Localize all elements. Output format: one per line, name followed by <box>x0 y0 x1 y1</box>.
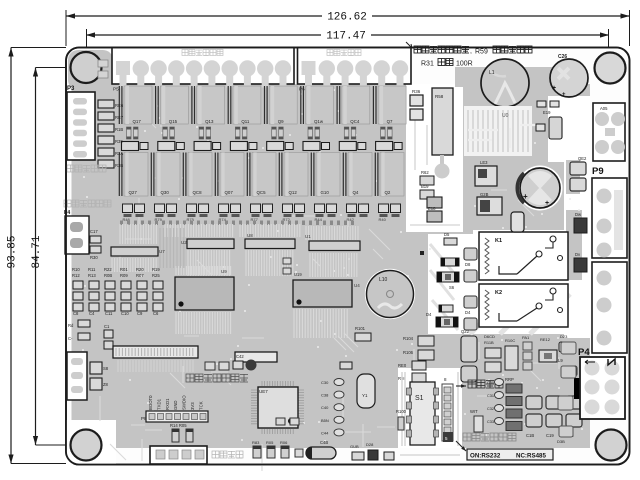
svg-text:C44: C44 <box>321 430 329 435</box>
svg-text:C10: C10 <box>121 311 129 316</box>
svg-text:117.47: 117.47 <box>326 31 366 43</box>
diode D5 <box>444 238 457 245</box>
annotation solder note <box>406 42 412 48</box>
crystal Y1 <box>357 374 375 408</box>
svg-text:R10: R10 <box>72 267 80 272</box>
svg-text:U7: U7 <box>159 249 165 254</box>
svg-text:A05: A05 <box>600 106 608 111</box>
svg-text:GUB: GUB <box>350 444 359 449</box>
svg-text:R20: R20 <box>136 267 144 272</box>
svg-text:R0B: R0B <box>104 273 112 278</box>
svg-text:R83: R83 <box>252 440 260 445</box>
svg-text:R12: R12 <box>72 273 80 278</box>
diode D8 <box>464 248 477 260</box>
svg-text:R36: R36 <box>412 89 421 94</box>
svg-text:RE12: RE12 <box>540 337 551 342</box>
mounting hole bottom-left <box>71 430 102 461</box>
svg-text:R09: R09 <box>120 273 128 278</box>
svg-text:C26: C26 <box>558 54 567 60</box>
mounting hole bottom-right <box>596 430 627 461</box>
svg-text:Z8: Z8 <box>103 382 109 387</box>
component QE2 <box>570 162 586 175</box>
svg-text:R13: R13 <box>88 273 96 278</box>
resistor B19 <box>420 190 434 199</box>
trace lines near S1 <box>400 372 460 455</box>
component E18 <box>427 197 442 208</box>
IC S1 <box>410 382 435 445</box>
resistor R58 <box>432 88 453 155</box>
svg-text:Q30: Q30 <box>161 190 170 195</box>
svg-text:Q27: Q27 <box>129 190 138 195</box>
svg-text:QE2: QE2 <box>578 156 587 161</box>
IC U7 <box>111 247 158 256</box>
svg-text:R2A: R2A <box>115 151 123 156</box>
svg-text:R11: R11 <box>88 267 96 272</box>
pads C18 C19 C20 <box>526 396 542 409</box>
svg-text:P5: P5 <box>113 87 119 92</box>
svg-text:SWDIO: SWDIO <box>182 395 187 410</box>
svg-text:R01: R01 <box>120 267 128 272</box>
svg-text:R05: R05 <box>266 440 274 445</box>
svg-text:Dw: Dw <box>575 212 582 217</box>
copper pour <box>72 84 591 448</box>
svg-text:C17: C17 <box>90 229 98 234</box>
test point <box>420 251 424 255</box>
svg-text:R25: R25 <box>152 273 160 278</box>
component S8 <box>90 362 102 374</box>
svg-text:B19: B19 <box>421 184 429 189</box>
resistor R62 <box>420 176 434 185</box>
inductor L10 <box>365 269 415 319</box>
svg-text:C31: C31 <box>487 394 494 398</box>
connector K7 <box>150 446 207 464</box>
svg-text:+: + <box>523 192 528 201</box>
svg-text:E19: E19 <box>543 110 551 115</box>
IC U9 <box>175 277 234 310</box>
mounting hole top-left <box>71 52 102 83</box>
regulator U0 pad block <box>464 106 532 156</box>
silkscreen text detect LED <box>186 374 248 382</box>
svg-text:R3B: R3B <box>115 163 123 168</box>
svg-text:C30: C30 <box>321 380 329 385</box>
svg-text:126.62: 126.62 <box>327 12 367 24</box>
svg-text:PA1: PA1 <box>522 335 530 340</box>
svg-text:Y1: Y1 <box>362 393 368 398</box>
svg-text:R14 R05: R14 R05 <box>170 423 187 428</box>
board outline <box>66 48 630 465</box>
connector J strip <box>113 346 198 358</box>
svg-text:S1: S1 <box>415 395 424 402</box>
svg-text:NC:RS485: NC:RS485 <box>516 453 546 460</box>
svg-text:D23: D23 <box>560 334 568 339</box>
LED LE3 <box>475 166 497 186</box>
svg-text:C11: C11 <box>105 311 113 316</box>
svg-text:Q4: Q4 <box>353 190 359 195</box>
inductor L1 <box>481 59 529 107</box>
relay K2 <box>479 284 568 327</box>
svg-text:,: , <box>470 48 472 55</box>
svg-text:ON:RS232: ON:RS232 <box>470 453 501 460</box>
svg-text:R101: R101 <box>355 326 366 331</box>
connector P10 <box>592 262 627 353</box>
diode Dw <box>574 218 587 233</box>
svg-text:C4: C4 <box>89 311 95 316</box>
black bar <box>574 378 581 399</box>
svg-text:R58: R58 <box>435 94 444 99</box>
connector P7 <box>67 352 87 400</box>
silkscreen text buzzer <box>64 200 111 207</box>
svg-text:C33: C33 <box>487 420 494 424</box>
svg-text:U2: U2 <box>181 240 187 245</box>
svg-text:QC5: QC5 <box>257 190 267 195</box>
IC U4 <box>293 280 352 307</box>
capacitor pair below strip <box>205 362 215 370</box>
svg-text:D5: D5 <box>444 232 450 237</box>
svg-text:K1: K1 <box>495 238 502 244</box>
svg-text:Q22: Q22 <box>461 329 470 334</box>
light diagonal traces in channel <box>430 244 458 330</box>
svg-text:L9: L9 <box>558 358 563 363</box>
svg-text:Q15: Q15 <box>169 119 178 124</box>
svg-text:C32: C32 <box>487 407 494 411</box>
svg-text:100R: 100R <box>456 61 473 68</box>
capacitor C24 C25 <box>537 101 546 107</box>
svg-text:S8: S8 <box>103 366 109 371</box>
dimension 93.85 <box>10 48 12 464</box>
resistor near K1 <box>441 258 459 266</box>
svg-text:C42: C42 <box>236 354 244 359</box>
label RS232 RS485 <box>467 449 553 460</box>
pin pad row <box>120 221 354 226</box>
svg-text:C1B: C1B <box>526 433 534 438</box>
svg-text:R1B: R1B <box>115 127 123 132</box>
svg-text:D28: D28 <box>366 442 374 447</box>
component G2B <box>477 197 502 215</box>
svg-text:C4B: C4B <box>320 440 328 445</box>
svg-text:R62: R62 <box>421 170 429 175</box>
annotation comm port setting <box>456 441 466 451</box>
component Z8 <box>90 378 102 390</box>
svg-text:C30: C30 <box>487 381 494 385</box>
svg-text:R30: R30 <box>90 255 98 260</box>
svg-text:R07: R07 <box>136 273 144 278</box>
svg-text:P4: P4 <box>64 210 70 216</box>
svg-text:C-: C- <box>68 336 73 341</box>
dimension 117.47 <box>86 34 321 36</box>
svg-text:C38: C38 <box>321 393 329 398</box>
svg-text:D4: D4 <box>426 312 432 317</box>
svg-text:Q9: Q9 <box>278 119 284 124</box>
IC U8 <box>245 239 295 249</box>
svg-text:B5N: B5N <box>321 418 329 423</box>
pads left of P4 <box>561 342 576 354</box>
svg-text:C9: C9 <box>137 311 143 316</box>
svg-text:UE7: UE7 <box>259 389 268 394</box>
capacitor C7 electrolytic <box>518 166 563 211</box>
diode Dv <box>574 258 587 272</box>
svg-text:S6: S6 <box>449 285 455 290</box>
resistor pair below UE7 <box>276 418 285 425</box>
svg-text:RE6: RE6 <box>115 103 124 108</box>
IC U2 <box>187 239 234 249</box>
connector J strip 2 <box>235 352 277 362</box>
svg-text:P6: P6 <box>299 87 305 92</box>
svg-text:D8: D8 <box>465 262 471 267</box>
svg-text:D6CD: D6CD <box>484 334 495 339</box>
pads near top-left hole <box>98 60 108 67</box>
white diagonal traces near relays K <box>470 294 570 334</box>
svg-text:BOOT0: BOOT0 <box>148 395 153 410</box>
svg-text:R19: R19 <box>152 267 160 272</box>
svg-text:P9: P9 <box>592 166 604 177</box>
svg-text:TXD1: TXD1 <box>156 398 161 410</box>
relay row 2 <box>119 153 404 197</box>
svg-text:GND: GND <box>173 400 178 410</box>
svg-text:R11B: R11B <box>484 340 494 345</box>
svg-text:R59: R59 <box>475 49 488 56</box>
svg-text:L10: L10 <box>379 277 388 283</box>
silkscreen text digital tube <box>67 165 106 172</box>
svg-text:R31: R31 <box>421 61 434 68</box>
capacitor C26 <box>550 59 588 97</box>
resistor pairs under row 2 <box>123 204 401 222</box>
svg-text:WIT: WIT <box>470 409 478 414</box>
silkscreen text port <box>212 451 243 458</box>
pin hatch fields <box>120 224 156 244</box>
svg-text:Q11: Q11 <box>241 119 250 124</box>
svg-text:U4: U4 <box>354 283 360 288</box>
svg-text:G10: G10 <box>321 190 330 195</box>
svg-text:93.85: 93.85 <box>7 235 19 268</box>
trace in white channel <box>410 120 460 225</box>
svg-text:RE7: RE7 <box>115 115 124 120</box>
svg-text:3V3: 3V3 <box>190 402 195 410</box>
svg-text:+: + <box>545 200 549 207</box>
mounting hole top-right <box>595 53 626 84</box>
svg-text:C1: C1 <box>104 324 110 329</box>
dimension 126.62 <box>66 15 322 17</box>
svg-text:D4: D4 <box>465 310 471 315</box>
svg-text:QC8: QC8 <box>193 190 203 195</box>
connector P9 <box>592 178 627 258</box>
svg-text:Q2: Q2 <box>385 190 391 195</box>
svg-text:R39: R39 <box>115 139 123 144</box>
svg-text:+: + <box>562 92 566 98</box>
resistor near K2 <box>439 305 453 312</box>
svg-text:R10C: R10C <box>505 338 515 343</box>
connector P5 <box>112 48 294 85</box>
resistor column RE6-R3B <box>98 100 114 108</box>
svg-text:E18: E18 <box>428 206 436 211</box>
svg-text:U0: U0 <box>502 113 509 119</box>
svg-text:Q17: Q17 <box>133 119 142 124</box>
svg-text:C40: C40 <box>321 405 329 410</box>
svg-text:Q12: Q12 <box>289 190 298 195</box>
svg-text:RXD1: RXD1 <box>165 398 170 410</box>
svg-text:R104: R104 <box>403 336 414 341</box>
resistor row R44-R59 <box>122 142 403 151</box>
svg-text:Dv: Dv <box>575 252 581 257</box>
svg-text:U8: U8 <box>247 233 253 238</box>
svg-text:Q13: Q13 <box>205 119 214 124</box>
svg-text:D3B: D3B <box>557 439 565 444</box>
svg-text:C8: C8 <box>73 311 79 316</box>
svg-text:R106: R106 <box>403 350 414 355</box>
connector P3 <box>67 92 95 160</box>
svg-text:Q7: Q7 <box>387 119 393 124</box>
svg-text:TCK: TCK <box>198 401 203 410</box>
resistor grid R10-R25 <box>72 267 163 316</box>
relay row 1 <box>119 86 406 139</box>
svg-text:R22: R22 <box>104 267 112 272</box>
svg-text:L1: L1 <box>489 70 495 76</box>
svg-text:LE3: LE3 <box>480 160 488 165</box>
IC U1 <box>309 241 360 251</box>
connector A05 <box>593 103 625 161</box>
svg-text:U9: U9 <box>221 269 227 274</box>
diode D-A <box>340 362 352 369</box>
svg-text:84.71: 84.71 <box>31 235 43 268</box>
dimension 84.71 <box>35 68 37 446</box>
board outline re-stroke <box>66 48 630 465</box>
svg-text:G2B: G2B <box>480 192 489 197</box>
svg-text:K2: K2 <box>495 290 502 296</box>
svg-text:R06: R06 <box>280 440 288 445</box>
svg-text:QC4: QC4 <box>350 119 360 124</box>
relay K1 <box>479 232 568 280</box>
diode D4 pads <box>464 296 477 308</box>
svg-text:U1: U1 <box>305 234 311 239</box>
svg-text:C19: C19 <box>546 433 554 438</box>
via dots <box>81 87 583 442</box>
svg-text:C6: C6 <box>153 311 159 316</box>
capacitor C2x pair <box>283 258 291 264</box>
svg-text:+: + <box>552 85 556 92</box>
svg-text:R100: R100 <box>396 409 407 414</box>
svg-text:P3: P3 <box>67 86 75 92</box>
svg-text:Q1w: Q1w <box>314 119 324 124</box>
connector P6 <box>298 48 412 85</box>
annotation address setting <box>456 385 466 387</box>
capacitor C27 <box>511 212 524 232</box>
IC UE7 <box>251 390 257 424</box>
capacitor C23 <box>536 124 545 131</box>
pour texture traces <box>80 98 559 471</box>
svg-text:U19: U19 <box>294 272 302 277</box>
svg-text:RE0: RE0 <box>398 363 407 368</box>
bottom resistors R05 R06 <box>253 446 261 458</box>
svg-text:Rd: Rd <box>68 323 74 328</box>
svg-text:R40: R40 <box>379 217 387 222</box>
svg-text:Q07: Q07 <box>225 190 234 195</box>
svg-text:RRP: RRP <box>505 377 514 382</box>
